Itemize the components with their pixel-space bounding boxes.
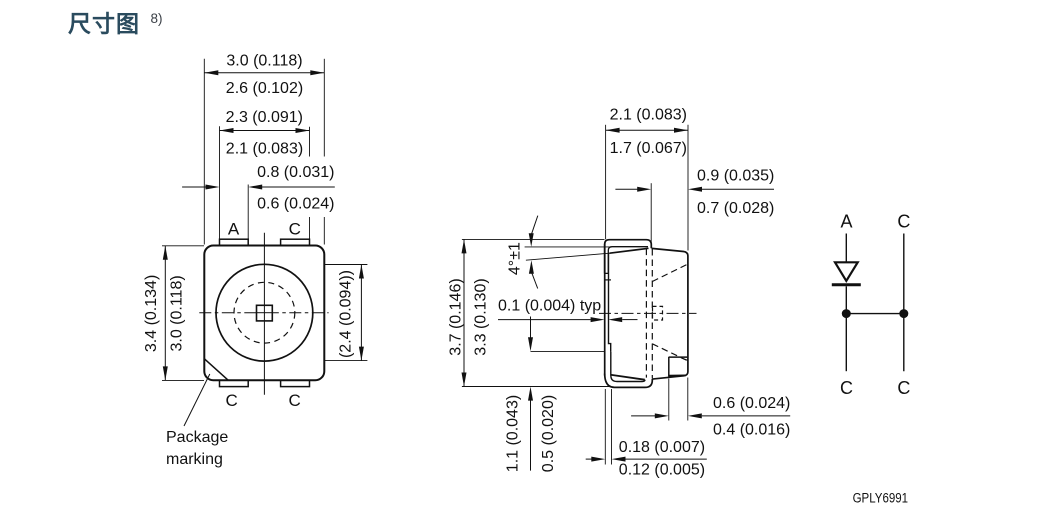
svg-text:0.6 (0.024): 0.6 (0.024)	[713, 395, 790, 412]
extension line top (3.4 dim)	[162, 245, 204, 247]
svg-text:2.3 (0.091): 2.3 (0.091)	[226, 109, 303, 126]
package body outline (top view)	[204, 246, 324, 381]
extension line lead exit (1.1 dim)	[531, 351, 605, 353]
extension line bottom (3.7 dim)	[462, 386, 611, 388]
hidden reflector wall dashed right	[651, 249, 653, 379]
angle ref horizontal line	[525, 246, 612, 248]
svg-text:C: C	[289, 219, 301, 238]
lens inner dashed circle	[234, 282, 295, 343]
angle leader bottom with arrow	[529, 260, 534, 274]
junction node right	[899, 309, 908, 318]
extension line package right (two segments)	[323, 59, 325, 157]
dim line 3.4/3.0 vertical	[164, 246, 166, 381]
svg-text:3.7 (0.146): 3.7 (0.146)	[447, 278, 464, 355]
svg-text:2.1 (0.083): 2.1 (0.083)	[226, 141, 303, 158]
svg-text:0.7 (0.028): 0.7 (0.028)	[697, 200, 774, 217]
svg-text:2.1 (0.083): 2.1 (0.083)	[610, 107, 687, 124]
body bottom face sliver	[611, 375, 645, 380]
junction node left	[842, 309, 851, 318]
crosshair inside square	[263, 305, 265, 321]
svg-text:0.8 (0.031): 0.8 (0.031)	[257, 164, 334, 181]
lead inner top line	[605, 247, 648, 274]
lens outer circle	[216, 264, 313, 361]
svg-text:0.1 (0.004) typ: 0.1 (0.004) typ	[498, 298, 601, 315]
extension line lens bottom (2.4 dim)	[324, 360, 367, 362]
angle leader top with arrow	[532, 216, 538, 234]
svg-text:2.6 (0.102): 2.6 (0.102)	[226, 80, 303, 97]
lead outer contour (J-bend)	[605, 240, 652, 274]
svg-text:3.0 (0.118): 3.0 (0.118)	[226, 53, 302, 70]
svg-text:A: A	[228, 219, 240, 238]
svg-text:C: C	[289, 391, 301, 410]
bottom pin C left (left view)	[220, 380, 249, 386]
dim arrows 0.9/0.7	[615, 188, 637, 190]
lead outer left face	[604, 244, 606, 376]
horizontal centerline dash-dot (left view)	[199, 312, 328, 314]
extension line lead inner bottom	[611, 389, 613, 465]
vertical centerline (left view)	[263, 233, 265, 395]
lead bottom bend inner	[611, 352, 645, 382]
cathode stub bottom right	[668, 357, 670, 377]
svg-text:C: C	[897, 211, 910, 231]
svg-text:3.0 (0.118): 3.0 (0.118)	[168, 275, 185, 351]
dim line 3.7/3.3 vertical	[463, 239, 465, 386]
leader line package marking	[184, 374, 210, 426]
dim arrows 0.8/0.6 pin width	[182, 186, 206, 188]
dim line 2.1/1.7	[606, 129, 688, 131]
chamfer corner (package marking)	[204, 359, 228, 380]
extension line body right top	[687, 125, 689, 251]
svg-text:0.9 (0.035): 0.9 (0.035)	[697, 167, 774, 184]
dim line 1.1/0.5 with outside arrows	[530, 317, 532, 339]
svg-text:0.5 (0.020): 0.5 (0.020)	[540, 395, 557, 472]
extension line package left	[203, 59, 205, 245]
svg-text:0.4 (0.016): 0.4 (0.016)	[713, 421, 790, 438]
svg-text:C: C	[840, 378, 853, 398]
center square (chip)	[257, 305, 273, 321]
dim arrows 0.1 typ lead thickness	[498, 319, 591, 321]
svg-text:marking: marking	[166, 451, 223, 468]
extension line stub left	[668, 379, 670, 421]
extension line pin A right	[247, 185, 249, 239]
hidden reflector wall dashed left	[645, 249, 647, 378]
svg-text:0.6 (0.024): 0.6 (0.024)	[257, 195, 334, 212]
extension line lens top (2.4 dim)	[324, 264, 367, 266]
wire diode to junction	[845, 286, 847, 371]
svg-text:3.4 (0.134): 3.4 (0.134)	[143, 275, 160, 352]
wire A to diode	[845, 234, 847, 263]
extension line lead left top	[605, 125, 607, 240]
body top-left face (4 deg slope)	[610, 248, 649, 253]
lead boundary tick	[605, 279, 611, 281]
lead bottom bend outer	[605, 374, 653, 388]
svg-text:4°±1: 4°±1	[507, 242, 524, 275]
hidden cone dashed lower	[652, 344, 687, 361]
svg-text:0.18 (0.007): 0.18 (0.007)	[619, 439, 705, 456]
svg-text:0.12 (0.005): 0.12 (0.005)	[619, 462, 705, 479]
bottom pin C right (left view)	[281, 380, 310, 386]
svg-text:C: C	[897, 378, 910, 398]
body left face with step	[609, 253, 611, 352]
svg-text:A: A	[840, 211, 852, 231]
hidden cone dashed upper	[652, 264, 687, 281]
wire connecting junctions	[846, 313, 904, 315]
extension line lead bend right	[650, 183, 652, 246]
svg-text:3.3 (0.130): 3.3 (0.130)	[473, 278, 490, 355]
extension line body right bottom	[687, 378, 689, 421]
svg-text:1.1 (0.043): 1.1 (0.043)	[504, 395, 521, 472]
top pin A (left view)	[220, 239, 249, 245]
wire C top to bottom (right)	[903, 234, 905, 372]
svg-text:C: C	[226, 391, 238, 410]
angle sloped extension line	[526, 253, 610, 260]
body top-right face, right face and bottom	[652, 248, 688, 379]
dim line 3.0/2.6	[204, 72, 324, 74]
svg-text:1.7 (0.067): 1.7 (0.067)	[610, 140, 687, 157]
svg-text:Package: Package	[166, 429, 228, 446]
extension line pin C right (two segments)	[309, 127, 311, 157]
top pin C (left view)	[281, 239, 310, 245]
svg-text:尺寸图: 尺寸图	[68, 11, 140, 37]
dim arrows 0.18/0.12 lead bottom	[586, 458, 592, 460]
dim line 2.3/2.1	[220, 130, 310, 132]
extension line bottom (3.4 dim)	[162, 379, 204, 381]
extension line top (3.7 dim)	[462, 238, 605, 240]
diode D1 triangle	[835, 262, 858, 281]
svg-text:(2.4 (0.094)): (2.4 (0.094))	[337, 270, 354, 358]
diode cathode bar	[832, 283, 861, 286]
extension line pin A left	[219, 126, 221, 239]
hidden chip square dashed	[653, 306, 663, 320]
dim arrows 0.6/0.4 stub	[631, 415, 655, 417]
svg-text:GPLY6991: GPLY6991	[853, 491, 909, 506]
horizontal centerline dash-dot (side view)	[599, 312, 697, 314]
svg-text:8): 8)	[151, 11, 163, 26]
extension line lead outer bottom	[604, 389, 606, 465]
dim line 2.4 vertical	[360, 265, 362, 361]
